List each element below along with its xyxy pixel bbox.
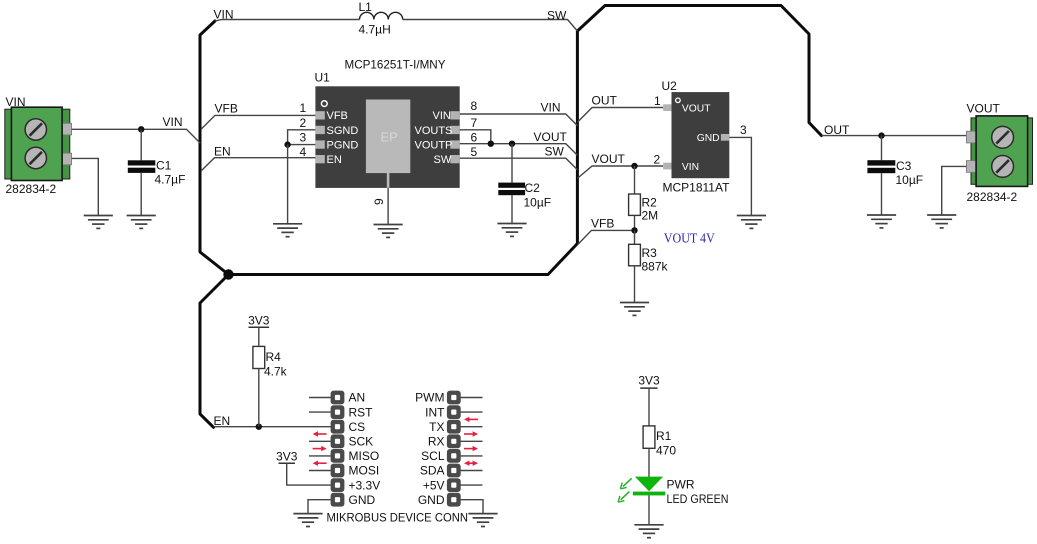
svg-text:2M: 2M bbox=[642, 209, 659, 223]
svg-text:VFB: VFB bbox=[215, 101, 238, 115]
pin label GND (left) bbox=[349, 493, 376, 507]
svg-text:OUT: OUT bbox=[592, 94, 618, 108]
junction VFB/R2/R3 bbox=[631, 227, 637, 233]
arrow MISO in (red left) bbox=[313, 461, 327, 466]
pin pad U2.3 bbox=[721, 134, 729, 141]
svg-text:VOUT: VOUT bbox=[534, 130, 568, 144]
LED PWR green bbox=[633, 477, 729, 525]
svg-text:INT: INT bbox=[425, 405, 445, 419]
pin label PWM bbox=[415, 391, 444, 405]
resistor R1 470 bbox=[643, 426, 676, 477]
pin pad U1.4 EN bbox=[315, 154, 341, 166]
power 3V3 (+3.3V pin) bbox=[276, 450, 331, 486]
wire VIN top to L1 bbox=[215, 20, 360, 22]
pin pad U1.3 PGND bbox=[315, 139, 358, 151]
node EN (left of U1) bbox=[214, 144, 231, 158]
svg-text:VOUT: VOUT bbox=[682, 104, 711, 115]
svg-text:MISO: MISO bbox=[349, 449, 380, 463]
svg-text:GND: GND bbox=[418, 493, 445, 507]
net label VOUT 4V bbox=[664, 232, 715, 247]
wire stub TX bbox=[461, 426, 483, 428]
svg-text:VIN: VIN bbox=[433, 110, 451, 122]
wire stub SCL bbox=[461, 455, 483, 457]
svg-text:TX: TX bbox=[429, 420, 444, 434]
svg-text:EN: EN bbox=[327, 154, 342, 166]
junction EN/R4 bbox=[256, 424, 262, 430]
node SW (top right) bbox=[547, 9, 567, 23]
ground R3 bbox=[620, 303, 649, 316]
svg-text:2: 2 bbox=[654, 153, 661, 167]
pin pad U1.8 VIN bbox=[433, 110, 460, 122]
svg-text:3: 3 bbox=[300, 131, 307, 145]
ground LED bbox=[634, 525, 663, 538]
svg-text:SW: SW bbox=[547, 9, 567, 23]
pin label RST bbox=[349, 405, 374, 419]
svg-text:MOSI: MOSI bbox=[349, 464, 380, 478]
pin label +3.3V bbox=[349, 478, 381, 492]
svg-text:RST: RST bbox=[349, 405, 374, 419]
wire stub SDA bbox=[461, 470, 483, 472]
svg-text:4.7k: 4.7k bbox=[264, 365, 288, 379]
svg-text:EN: EN bbox=[214, 414, 231, 428]
svg-text:VFB: VFB bbox=[327, 110, 348, 122]
LED emission arrow 1 bbox=[620, 478, 631, 489]
wire EN pin4 to bus bbox=[201, 158, 315, 171]
svg-text:SW: SW bbox=[434, 154, 452, 166]
svg-text:PGND: PGND bbox=[327, 139, 359, 151]
svg-text:7: 7 bbox=[471, 116, 478, 130]
inductor L1 bbox=[359, 0, 403, 37]
arrow TX out (red right) bbox=[464, 431, 478, 436]
capacitor C1 4.7uF bbox=[128, 129, 186, 215]
pin label GND (right) bbox=[418, 493, 445, 507]
svg-text:VIN: VIN bbox=[682, 162, 699, 173]
pin pad U2.2 bbox=[663, 163, 671, 170]
arrow SCK out (red right) bbox=[313, 446, 327, 451]
svg-text:C2: C2 bbox=[525, 181, 541, 195]
pin number 2 bbox=[300, 116, 307, 130]
svg-text:RX: RX bbox=[428, 435, 445, 449]
capacitor C3 10uF bbox=[867, 136, 923, 215]
svg-text:2: 2 bbox=[300, 116, 307, 130]
pin label MISO bbox=[349, 449, 380, 463]
svg-text:MIKROBUS DEVICE CONN: MIKROBUS DEVICE CONN bbox=[327, 511, 469, 525]
wire VOUTS pin7 jog bbox=[460, 130, 491, 144]
ground C2 bbox=[497, 224, 526, 237]
wire stub MISO bbox=[309, 455, 331, 457]
node SW (right of U1) bbox=[545, 144, 565, 158]
pin number 6 bbox=[471, 131, 478, 145]
svg-text:AN: AN bbox=[349, 391, 366, 405]
pin pad U2.1 bbox=[663, 104, 671, 111]
wire OUT bus to U2 pin1 bbox=[577, 108, 663, 123]
junction SGND/PGND bbox=[284, 141, 290, 147]
svg-text:3V3: 3V3 bbox=[276, 450, 298, 464]
node EN (bottom) bbox=[214, 414, 231, 428]
pin label SDA bbox=[420, 464, 445, 478]
header P1 mikroBUS left column bbox=[331, 391, 345, 507]
node OUT (left of U2) bbox=[592, 94, 618, 108]
pin pad U1.6 VOUTP bbox=[415, 139, 460, 151]
pin label CS bbox=[349, 420, 366, 434]
wire VFB pin1 to bus bbox=[201, 115, 315, 129]
arrow INT in (red left) bbox=[464, 417, 478, 422]
svg-text:U1: U1 bbox=[315, 71, 331, 85]
wire stub AN bbox=[309, 397, 331, 399]
wire GND left header bbox=[308, 500, 331, 514]
pin number 5 bbox=[471, 145, 478, 159]
svg-text:R2: R2 bbox=[642, 196, 658, 210]
svg-text:GND: GND bbox=[349, 493, 376, 507]
svg-text:VIN: VIN bbox=[541, 101, 561, 115]
node VIN (top left) bbox=[214, 8, 234, 22]
svg-text:PWM: PWM bbox=[415, 391, 444, 405]
ground EP U1 bbox=[374, 225, 403, 238]
svg-text:282834-2: 282834-2 bbox=[6, 182, 57, 196]
node VFB (left) bbox=[215, 101, 238, 115]
wire VOUT bus to U2 pin2 bbox=[577, 166, 663, 178]
svg-text:10µF: 10µF bbox=[896, 173, 924, 187]
junction VOUT/R2 bbox=[631, 163, 637, 169]
svg-text:CS: CS bbox=[349, 420, 366, 434]
svg-text:4: 4 bbox=[300, 145, 307, 159]
ground C3 bbox=[867, 215, 896, 228]
wire VFB bus to R2/R3 bbox=[578, 230, 635, 244]
ground left header bbox=[293, 514, 322, 527]
junction VIN/C1 bbox=[138, 126, 144, 132]
wire stub RST bbox=[309, 411, 331, 413]
svg-text:VOUT: VOUT bbox=[967, 102, 1001, 116]
arrow SDA bidir (red) bbox=[464, 461, 478, 466]
svg-text:VIN: VIN bbox=[6, 95, 26, 109]
arrow CS in (red left) bbox=[313, 431, 327, 436]
node OUT (top right, to C3) bbox=[824, 123, 850, 137]
node VIN label (near C1) bbox=[163, 115, 183, 129]
pin number 8 bbox=[471, 99, 478, 113]
junction OUT/C3 bbox=[878, 132, 884, 138]
svg-text:SCL: SCL bbox=[421, 449, 445, 463]
wire VIN terminal to bus bbox=[72, 129, 201, 143]
wire SW pin5 to bus bbox=[460, 158, 578, 170]
wire stub SCK bbox=[309, 440, 331, 442]
svg-text:6: 6 bbox=[471, 131, 478, 145]
pin label SCK bbox=[349, 435, 374, 449]
wire terminal pin2 to ground bbox=[72, 158, 99, 215]
pin label MOSI bbox=[349, 464, 380, 478]
svg-text:VOUTP: VOUTP bbox=[415, 139, 453, 151]
pin label INT bbox=[425, 405, 445, 419]
pin label TX bbox=[429, 420, 444, 434]
svg-text:LED GREEN: LED GREEN bbox=[667, 492, 729, 506]
svg-text:1: 1 bbox=[300, 101, 307, 115]
svg-text:MCP1811AT: MCP1811AT bbox=[663, 181, 731, 195]
svg-text:10µF: 10µF bbox=[524, 196, 552, 210]
wire OUT to VOUT terminal bbox=[822, 135, 967, 137]
pin number 7 bbox=[471, 116, 478, 130]
svg-text:SGND: SGND bbox=[327, 125, 359, 137]
wire EP pad to ground bbox=[387, 173, 390, 225]
pin number 3 bbox=[300, 131, 307, 145]
svg-text:EN: EN bbox=[214, 144, 231, 158]
svg-text:+3.3V: +3.3V bbox=[349, 478, 381, 492]
ground right header bbox=[468, 514, 497, 527]
svg-text:VOUTS: VOUTS bbox=[415, 125, 453, 137]
pin label RX bbox=[428, 435, 445, 449]
wire stub PWM bbox=[461, 397, 483, 399]
svg-text:GND: GND bbox=[697, 133, 720, 144]
wire stub MOSI bbox=[309, 470, 331, 472]
svg-text:VFB: VFB bbox=[591, 217, 614, 231]
svg-text:VOUT: VOUT bbox=[592, 152, 626, 166]
pin number U2 1 bbox=[654, 94, 661, 108]
op-amp U1 MCP16251T-I/MNY body bbox=[315, 58, 460, 188]
pin pad U1.7 VOUTS bbox=[415, 125, 460, 137]
ground VOUT terminal bbox=[927, 215, 956, 228]
wire PGND to ground bbox=[287, 145, 289, 224]
svg-text:282834-2: 282834-2 bbox=[967, 190, 1018, 204]
node VOUT (left of U2) bbox=[592, 152, 626, 166]
node VOUT (right of U1) bbox=[534, 130, 568, 144]
svg-text:VIN: VIN bbox=[163, 115, 183, 129]
wire thick bus net (octagon loop to OUT) bbox=[200, 6, 822, 275]
svg-text:R3: R3 bbox=[642, 246, 658, 260]
svg-text:EP: EP bbox=[381, 130, 398, 145]
pin number 9 (EP) bbox=[372, 198, 386, 205]
wire VOUTP pin6 to bus bbox=[460, 144, 578, 156]
wire EN net to header CS bbox=[214, 426, 331, 428]
svg-text:3: 3 bbox=[740, 123, 747, 137]
svg-text:L1: L1 bbox=[359, 0, 373, 14]
ground PGND bbox=[273, 224, 302, 237]
header P2 mikroBUS right column bbox=[447, 391, 461, 507]
LED emission arrow 2 bbox=[618, 492, 629, 503]
svg-text:3V3: 3V3 bbox=[248, 314, 270, 328]
node VIN (right of U1) bbox=[541, 101, 561, 115]
svg-text:9: 9 bbox=[372, 198, 386, 205]
svg-text:1: 1 bbox=[654, 94, 661, 108]
svg-text:R4: R4 bbox=[266, 350, 282, 364]
svg-text:4.7µF: 4.7µF bbox=[155, 173, 186, 187]
svg-text:R1: R1 bbox=[656, 429, 672, 443]
pin number 1 bbox=[300, 101, 307, 115]
pin pad U1.5 SW bbox=[434, 154, 460, 166]
capacitor C2 10uF bbox=[498, 144, 551, 224]
wire U2 GND to ground bbox=[729, 137, 751, 215]
resistor R2 2M bbox=[629, 166, 659, 230]
wire stub RX bbox=[461, 440, 483, 442]
svg-text:PWR: PWR bbox=[667, 478, 695, 492]
arrow RX out (red right) bbox=[464, 446, 478, 451]
svg-text:+5V: +5V bbox=[423, 478, 445, 492]
svg-text:887k: 887k bbox=[642, 260, 669, 274]
svg-text:470: 470 bbox=[656, 444, 676, 458]
pin number U2 3 bbox=[740, 123, 747, 137]
svg-text:4.7µH: 4.7µH bbox=[359, 23, 391, 37]
resistor R4 4.7k bbox=[253, 346, 288, 426]
ground terminal VIN bbox=[84, 216, 113, 229]
pin number 4 bbox=[300, 145, 307, 159]
wire L1 to SW corner bbox=[403, 20, 578, 32]
pin label AN bbox=[349, 391, 366, 405]
wire GND right header bbox=[461, 500, 484, 514]
wire VIN pin8 to bus bbox=[460, 114, 578, 126]
label MIKROBUS DEVICE CONN bbox=[327, 511, 469, 525]
wire stub INT bbox=[461, 411, 483, 413]
junction VOUTP/C2 bbox=[509, 141, 515, 147]
svg-text:C1: C1 bbox=[156, 159, 172, 173]
svg-text:SDA: SDA bbox=[420, 464, 445, 478]
svg-text:SCK: SCK bbox=[349, 435, 374, 449]
resistor R3 887k bbox=[629, 230, 669, 302]
pin label +5V bbox=[423, 478, 445, 492]
node VFB (right) bbox=[591, 217, 614, 231]
regulator U2 MCP1811AT bbox=[662, 79, 731, 195]
svg-text:8: 8 bbox=[471, 99, 478, 113]
wire SGND jog pin2-pin3 bbox=[288, 130, 316, 145]
wire thick bus branch to EN bbox=[200, 275, 229, 428]
ground U2 bbox=[737, 216, 766, 229]
svg-text:SW: SW bbox=[545, 144, 565, 158]
wire stub +5V bbox=[461, 484, 483, 486]
junction bus corner dot bbox=[223, 269, 233, 279]
power 3V3 (LED) bbox=[638, 374, 660, 426]
power 3V3 (R4) bbox=[248, 314, 270, 347]
pin label SCL bbox=[421, 449, 445, 463]
svg-text:U2: U2 bbox=[662, 79, 678, 93]
pin pad U1.2 SGND bbox=[315, 125, 358, 137]
svg-text:VOUT 4V: VOUT 4V bbox=[664, 232, 715, 247]
terminal block VOUT 282834-2 bbox=[966, 102, 1032, 205]
svg-text:3V3: 3V3 bbox=[638, 374, 660, 388]
pin pad U1.1 VFB bbox=[315, 110, 348, 122]
svg-text:OUT: OUT bbox=[824, 123, 850, 137]
ground C1 bbox=[127, 216, 156, 229]
svg-text:5: 5 bbox=[471, 145, 478, 159]
svg-text:C3: C3 bbox=[896, 159, 912, 173]
svg-text:MCP16251T-I/MNY: MCP16251T-I/MNY bbox=[345, 58, 446, 72]
junction VOUTS/VOUTP bbox=[488, 141, 494, 147]
pin number U2 2 bbox=[654, 153, 661, 167]
terminal block VIN 282834-2 bbox=[5, 95, 72, 196]
wire VOUT terminal pin2 to ground bbox=[942, 166, 967, 215]
